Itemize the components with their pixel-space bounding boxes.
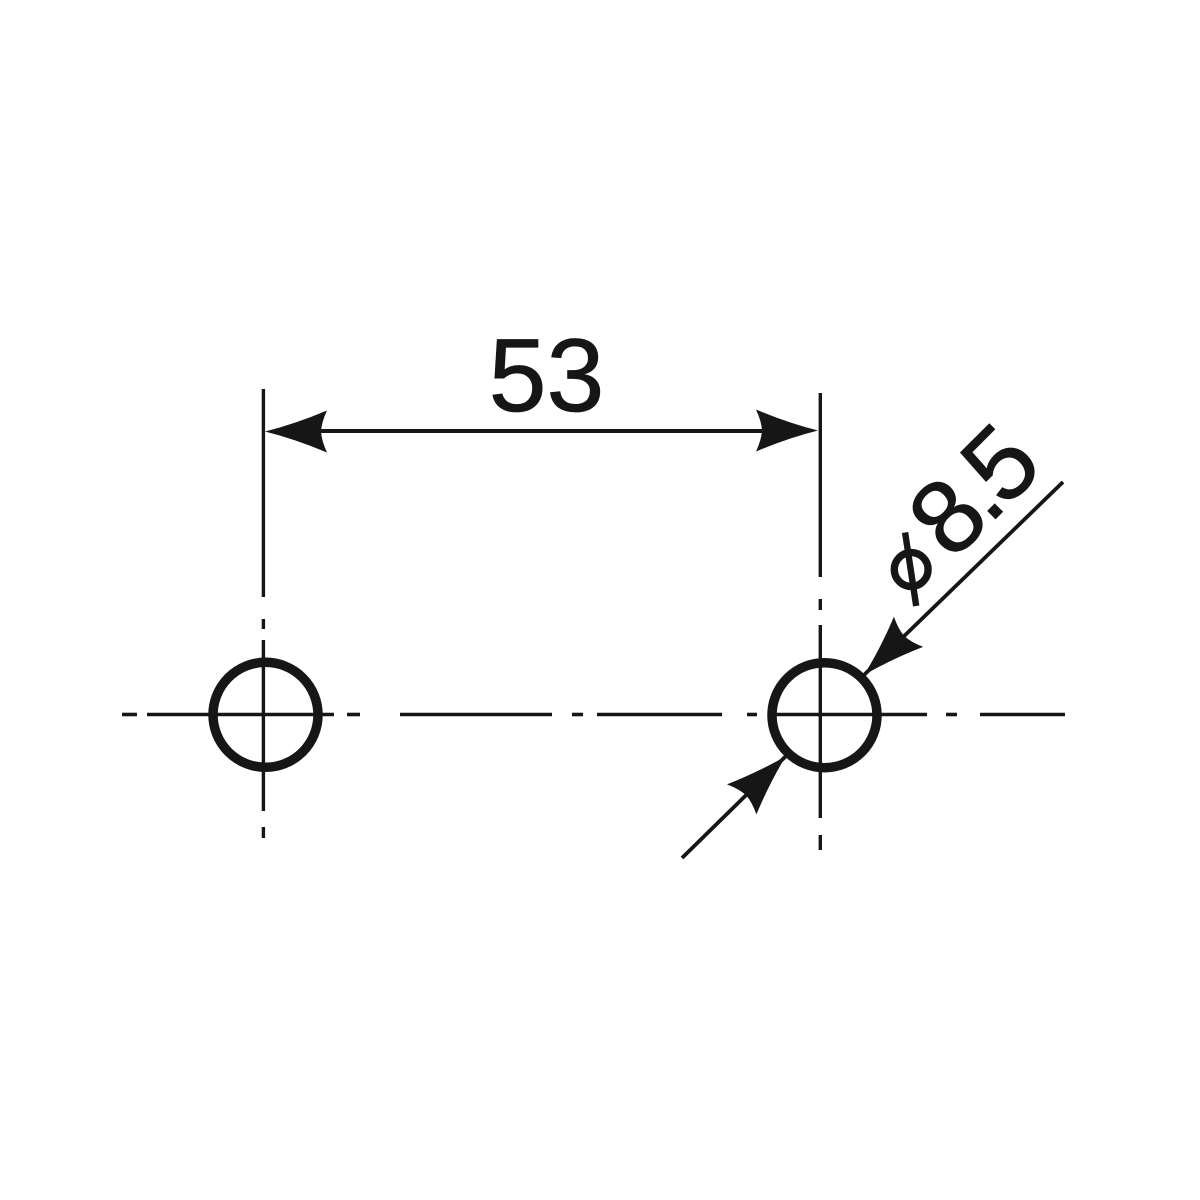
wire: centerline dash 3 [347,713,360,717]
wire: left center mark vertical [262,640,265,811]
wire: centerline dash 7 [747,713,757,717]
diameter symbol slash [905,533,916,607]
wire: centerline long dash 8 (through right hole) [775,713,927,717]
arrowhead left of dimension 53 [265,411,327,453]
wire: centerline long dash 2 (through left hole) [147,713,334,717]
wire: right center mark vertical [819,625,822,818]
wire: centerline long dash 6 [597,713,722,717]
leader line for diameter 8.5 [864,482,1063,675]
right vertical centerline / extension line [819,393,822,850]
svg-text:53: 53 [489,318,605,434]
diameter symbol circle [894,553,928,587]
horizontal centerline (dash-dot through both holes) [122,713,1065,717]
arrowhead right of dimension 53 [756,410,818,452]
wire: right extension line [819,393,822,577]
left vertical centerline / extension line [262,389,265,838]
arrowhead of diameter leader (points down-left at hole) [849,617,923,690]
wire: left center dash upper [262,619,265,629]
dimension line 53 [318,429,767,433]
wire: right center dash upper [819,599,822,610]
hole circle left [213,662,318,767]
wire: centerline dash 9 [946,713,957,717]
arrowhead of lower-left pointer (points up-right at hole) [727,741,801,814]
wire: right center dash lower [819,835,822,850]
wire: left center dash lower [262,827,265,838]
wire: centerline dash 5 [572,713,583,717]
hole circle right [772,663,877,768]
lower-left pointer line at right hole [682,756,786,858]
wire: left extension line [262,389,265,597]
wire: centerline dash 1 [122,713,137,717]
wire: centerline long dash 10 [980,713,1065,717]
wire: centerline long dash 4 [400,713,552,717]
